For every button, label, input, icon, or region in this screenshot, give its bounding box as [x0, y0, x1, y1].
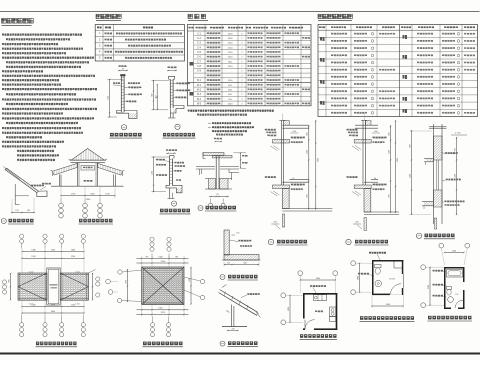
svg-text:1560: 1560 — [158, 308, 162, 310]
table: door-window schedule — [188, 25, 312, 106]
svg-text:4440: 4440 — [51, 311, 55, 313]
toilet — [375, 265, 382, 268]
plan: type-A kitchen layout — [281, 271, 338, 330]
toilet — [447, 287, 452, 290]
left lower roof slope — [53, 163, 78, 175]
svg-text:1560: 1560 — [189, 278, 191, 282]
upper hip roof triangle — [71, 149, 105, 161]
notes above expansion joint detail — [208, 122, 254, 135]
top annotation — [369, 252, 371, 254]
side axis bubbles and dims — [2, 280, 6, 284]
top coping hatch block — [284, 121, 290, 126]
lower projecting board (hatched) — [354, 185, 371, 189]
lower wall hatched column — [364, 189, 371, 213]
columns — [58, 175, 60, 187]
right dimension chains — [308, 125, 310, 210]
lower wall hatched column — [282, 189, 289, 209]
svg-text:1480: 1480 — [71, 249, 75, 251]
label — [346, 239, 351, 244]
axis bubbles below elevation — [60, 198, 62, 203]
detail: bay window C-4 section — [346, 114, 399, 246]
plan: type-A main bathroom layout — [421, 243, 470, 309]
svg-text:3300: 3300 — [288, 307, 290, 311]
svg-text:60: 60 — [217, 194, 219, 196]
lower projecting board (hatched) — [273, 185, 290, 189]
floor slab — [282, 208, 332, 210]
svg-text:2100: 2100 — [228, 47, 234, 49]
svg-text:780: 780 — [175, 256, 178, 258]
svg-text:450: 450 — [155, 95, 157, 98]
upper projecting board (hatched) — [273, 140, 290, 144]
svg-text:2800: 2800 — [317, 158, 319, 162]
top axis bubbles — [20, 234, 24, 238]
svg-text:200: 200 — [27, 210, 30, 212]
detail: parapet coping section (second roof parapet) — [152, 149, 186, 198]
svg-text:600: 600 — [243, 262, 246, 264]
label: type-A master-bedroom bathroom layout — [360, 316, 415, 321]
right dimension chains — [390, 125, 392, 213]
label: balcony parapet detail no.1 — [110, 125, 143, 139]
svg-text:1500: 1500 — [410, 174, 412, 178]
detail: eave rafter a section — [219, 285, 261, 332]
title: supplementary finish-practices table — [318, 14, 352, 21]
bottom clearance mark — [353, 223, 361, 225]
svg-text:1560: 1560 — [158, 256, 162, 258]
svg-text:≥ 700: ≥ 700 — [455, 132, 461, 135]
svg-text:1480: 1480 — [31, 249, 35, 251]
range/fixtures right — [330, 307, 336, 317]
upper annotations — [373, 137, 375, 139]
svg-text:1500: 1500 — [307, 150, 309, 154]
dimension line below — [61, 195, 115, 197]
plan: roof pavilion detail a — [2, 234, 100, 337]
detail: roof parapet section (wumian lanban dayang) — [152, 67, 191, 119]
svg-text:450: 450 — [307, 132, 309, 135]
svg-text:700: 700 — [455, 148, 457, 151]
lower annotations — [373, 184, 375, 186]
svg-text:1800: 1800 — [228, 38, 234, 40]
sink counter top — [314, 295, 327, 301]
kitchen walls — [303, 293, 337, 295]
plan: roof pavilion detail b — [106, 237, 205, 337]
label: eave gutter b — [1, 219, 34, 225]
bay top slab double line — [355, 124, 378, 126]
label: expansion joint detail — [198, 206, 237, 212]
svg-text:1500: 1500 — [228, 33, 234, 35]
elevation: roof pavilion (wumian tingzi limiantu) — [51, 149, 125, 219]
left annotations — [433, 270, 435, 272]
svg-text:240: 240 — [232, 328, 235, 330]
right lower roof slope — [98, 163, 123, 175]
label: parapet coping detail no.1 — [160, 201, 191, 214]
svg-text:5.100: 5.100 — [75, 271, 80, 273]
svg-text:1200: 1200 — [71, 304, 75, 306]
svg-text:900: 900 — [410, 144, 412, 147]
title: door-window schedule — [188, 14, 208, 21]
svg-text:1500: 1500 — [228, 57, 234, 59]
svg-text:1200: 1200 — [31, 256, 35, 258]
detail: window sill C-1 section — [410, 124, 468, 229]
center pavilion rect — [47, 268, 60, 305]
title: architectural design notes — [2, 19, 34, 26]
svg-text:2440: 2440 — [386, 304, 390, 306]
svg-text:900: 900 — [307, 194, 309, 197]
svg-text:3120: 3120 — [161, 312, 165, 314]
label: type-A main bathroom layout — [428, 316, 473, 321]
bottom axis bubbles — [152, 317, 154, 323]
left/right axis bubbles — [106, 279, 111, 284]
bottom axis bubbles — [21, 315, 23, 323]
svg-text:W.I.B: W.I.B — [389, 279, 395, 281]
bay top slab double line — [282, 124, 309, 126]
svg-text:1500: 1500 — [388, 150, 390, 154]
axis bubbles and dims — [298, 271, 303, 276]
svg-text:450: 450 — [388, 132, 390, 135]
table: drawing index — [95, 25, 184, 62]
svg-text:1560: 1560 — [452, 250, 456, 252]
label: roof pavilion plan a — [36, 342, 78, 347]
notes text block — [2, 34, 97, 162]
label: roof pavilion plan b — [143, 342, 184, 347]
svg-text:5.100: 5.100 — [29, 271, 34, 273]
washbasin — [448, 297, 454, 303]
detail: expansion joint section (shensuofeng dayang) — [196, 138, 248, 207]
svg-text:2640: 2640 — [316, 278, 320, 280]
pavilion body box — [77, 163, 79, 187]
top dimension chains — [22, 251, 84, 253]
centerline above wall — [363, 114, 365, 121]
bottom dim — [372, 305, 403, 307]
detail: eave gutter b section — [4, 167, 52, 214]
svg-text:1560: 1560 — [51, 304, 55, 306]
svg-text:3780: 3780 — [428, 285, 430, 289]
axis bubbles left — [351, 261, 356, 266]
washbasin — [375, 280, 381, 286]
wall verticals (window frame) — [362, 120, 364, 185]
right dim chain — [190, 267, 192, 305]
svg-text:120: 120 — [227, 262, 230, 264]
below-slab wall stub — [282, 214, 284, 227]
floor slab — [364, 211, 399, 213]
label: roof parapet detail no.2 — [163, 124, 196, 138]
label — [268, 239, 273, 244]
svg-text:1350: 1350 — [228, 66, 234, 68]
label: pavilion elevation — [79, 219, 114, 224]
bathtub — [447, 270, 463, 278]
label: window sill C-1 detail — [416, 233, 455, 239]
right hatched roof rect — [60, 273, 88, 300]
door arc — [455, 300, 463, 308]
title: drawing index table — [96, 14, 121, 21]
svg-text:780: 780 — [145, 256, 148, 258]
left hatched roof rect — [18, 273, 47, 300]
sheet bottom border line — [0, 353, 480, 355]
svg-text:1500: 1500 — [228, 104, 234, 106]
label: type-A kitchen layout — [300, 334, 338, 339]
sheet top border line — [0, 11, 480, 13]
svg-text:1000: 1000 — [228, 80, 234, 82]
svg-text:2800: 2800 — [397, 158, 399, 162]
svg-text:1500: 1500 — [455, 174, 457, 178]
ground line — [51, 185, 124, 187]
wall verticals (window frame) — [280, 120, 282, 185]
bottom dims — [137, 309, 189, 311]
svg-text:900: 900 — [388, 194, 390, 197]
label: eave detail a — [220, 341, 258, 347]
detail: balcony parapet section (yangtai lanban dayang) — [108, 65, 142, 118]
table: finish practices — [318, 25, 478, 117]
upper projecting board (hatched) — [354, 140, 371, 144]
svg-text:1500: 1500 — [228, 43, 234, 45]
detail: eave board section — [222, 230, 261, 267]
svg-text:1200: 1200 — [31, 304, 35, 306]
upper annotations — [291, 137, 293, 139]
notes under door-window schedule — [188, 110, 274, 116]
svg-text:2800: 2800 — [358, 276, 360, 280]
bottom clearance mark — [271, 223, 279, 225]
top dims — [137, 258, 189, 260]
door swing arc — [305, 320, 315, 330]
svg-text:120: 120 — [15, 210, 18, 212]
bottom dimension chains — [22, 306, 84, 308]
top axis bubbles — [150, 237, 154, 241]
label: eave board detail — [220, 275, 258, 281]
detail: bay window C-3 section — [265, 114, 333, 246]
shower corner — [393, 262, 395, 269]
svg-text:1560: 1560 — [126, 280, 128, 284]
centerline above wall — [282, 114, 284, 121]
axis bubbles — [421, 265, 426, 270]
svg-text:3120: 3120 — [161, 261, 165, 263]
svg-text:880: 880 — [9, 280, 11, 283]
door swing arc — [391, 284, 402, 295]
svg-text:5.100: 5.100 — [75, 303, 80, 305]
below-slab wall stub — [364, 218, 366, 231]
svg-text:1560: 1560 — [51, 249, 55, 251]
plan: type-A master-bedroom bathroom layout — [351, 252, 404, 308]
svg-text:1200: 1200 — [71, 256, 75, 258]
svg-text:1200: 1200 — [228, 52, 234, 54]
lower annotations — [291, 184, 293, 186]
top coping hatch block — [365, 121, 371, 126]
